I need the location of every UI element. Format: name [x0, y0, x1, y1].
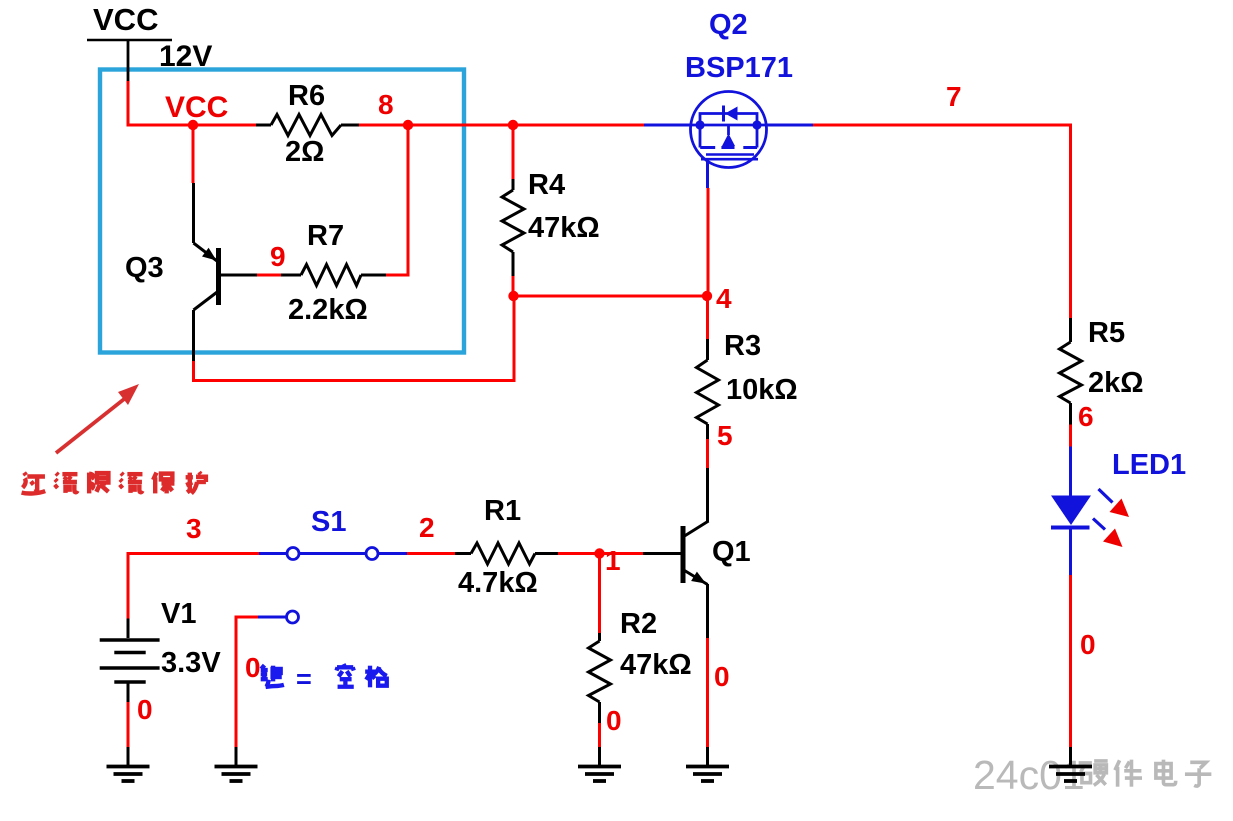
node 8 junction dot: [403, 120, 413, 130]
wire net 1 (dot to base): [558, 552, 643, 555]
watermark 硬件电子: [1079, 760, 1212, 787]
node 1 junction dot: [594, 548, 604, 558]
svg-text:=: =: [296, 664, 312, 694]
wire R4 top lead red: [512, 125, 515, 179]
svg-text:Q3: Q3: [125, 252, 164, 284]
wire VCC dot to Q3 emitter (red): [192, 125, 195, 183]
wire net 9 (R7 to Q3 base): [257, 274, 281, 277]
wire Q1 emitter down (black): [706, 584, 709, 638]
resistor R1: [455, 543, 558, 564]
wire net 3 (red): [128, 554, 259, 619]
wire R6 to node 8: [359, 124, 410, 127]
wire Q1 collector lead: [685, 468, 709, 536]
svg-text:R1: R1: [484, 495, 521, 527]
wire Q3 base lead: [220, 274, 257, 277]
resistor R3: [697, 339, 719, 439]
svg-text:Q1: Q1: [712, 536, 751, 568]
wire top rail to Q2 (blue lead): [644, 124, 691, 127]
svg-text:9: 9: [270, 241, 286, 272]
svg-text:8: 8: [378, 89, 394, 120]
svg-text:R7: R7: [307, 220, 344, 252]
wire node 8 down to R7: [386, 125, 408, 275]
svg-text:BSP171: BSP171: [685, 52, 793, 84]
wire R2 bottom (red): [598, 723, 601, 747]
wire Q2 right lead (blue): [767, 124, 814, 127]
battery V1: [100, 619, 160, 703]
node VCC junction dot: [188, 120, 198, 130]
svg-text:R6: R6: [288, 80, 325, 112]
wire net 5 (red): [706, 439, 709, 468]
svg-text:4.7kΩ: 4.7kΩ: [458, 567, 538, 599]
svg-text:2kΩ: 2kΩ: [1088, 367, 1144, 399]
svg-text:Q2: Q2: [709, 9, 748, 41]
wire Q1 emitter net 0 (red): [706, 638, 709, 747]
power VCC symbol: [87, 40, 172, 81]
svg-text:V1: V1: [161, 598, 196, 630]
resistor R6: [256, 115, 359, 136]
svg-text:2Ω: 2Ω: [285, 136, 324, 168]
node 4 junction dot: [702, 291, 712, 301]
node R4 tap dot: [508, 120, 518, 130]
svg-text:1: 1: [605, 545, 621, 576]
wire R4 bottom red: [512, 276, 515, 297]
svg-text:2.2kΩ: 2.2kΩ: [288, 294, 368, 326]
svg-text:S1: S1: [311, 506, 346, 538]
svg-text:0: 0: [137, 694, 153, 725]
svg-text:47kΩ: 47kΩ: [620, 649, 692, 681]
transistor Q3 (PNP): [194, 243, 219, 310]
svg-text:0: 0: [1080, 629, 1096, 660]
wire S1 throw stub (red): [236, 617, 258, 747]
svg-text:6: 6: [1078, 401, 1094, 432]
text 键 = 空格: [261, 664, 387, 694]
diode LED1: [1051, 447, 1129, 576]
ground (battery): [107, 747, 150, 781]
switch S1: [258, 548, 407, 624]
highlight box (overcurrent protection): [100, 70, 464, 353]
transistor Q1 (NPN): [683, 526, 708, 585]
svg-text:0: 0: [245, 652, 261, 683]
wire Q1 base lead: [643, 552, 681, 555]
resistor R2: [589, 633, 611, 723]
svg-text:12V: 12V: [159, 40, 212, 73]
resistor R4: [502, 179, 524, 276]
ground (switch throw): [215, 747, 258, 781]
svg-text:R4: R4: [528, 169, 565, 201]
svg-text:47kΩ: 47kΩ: [528, 212, 600, 244]
svg-text:4: 4: [716, 283, 732, 314]
wire top rail left (net VCC): [127, 124, 257, 127]
svg-text:R2: R2: [620, 608, 657, 640]
node R4 bottom junction dot: [508, 291, 518, 301]
svg-text:7: 7: [946, 81, 962, 112]
ground (LED): [1049, 747, 1092, 781]
svg-text:2: 2: [419, 512, 435, 543]
svg-text:0: 0: [714, 661, 730, 692]
wire top rail middle: [359, 124, 644, 127]
svg-text:R5: R5: [1088, 317, 1125, 349]
resistor R5: [1060, 318, 1082, 425]
transistor Q2 (PMOS BSP171): [691, 92, 767, 189]
wire Q2 gate down to node 4 (red): [707, 188, 710, 296]
ground (Q1): [686, 747, 729, 781]
wire net 6 (red): [1069, 425, 1072, 447]
wire net 2 (red): [407, 552, 455, 555]
svg-text:R3: R3: [724, 330, 761, 362]
wire Q3 emitter up (black lead): [192, 183, 195, 243]
svg-text:3.3V: 3.3V: [161, 647, 221, 679]
svg-text:LED1: LED1: [1112, 449, 1186, 481]
annotation arrow: [56, 384, 139, 453]
wire net 7 to right edge: [813, 125, 1071, 318]
svg-text:5: 5: [717, 420, 733, 451]
wire Q3 collector to R4 bottom node (red): [194, 296, 515, 381]
svg-text:VCC: VCC: [93, 2, 158, 37]
wire LED to ground (red): [1069, 575, 1072, 747]
wire VCC drop (red): [127, 81, 130, 127]
ground (R2): [578, 747, 621, 781]
wire Q3 collector down (black): [192, 310, 195, 361]
resistor R7: [281, 265, 386, 286]
wire R2 top (red): [598, 554, 601, 634]
wire node 4 horizontal: [514, 295, 708, 298]
svg-text:10kΩ: 10kΩ: [726, 374, 798, 406]
svg-text:VCC: VCC: [165, 91, 228, 124]
wire battery to ground (red): [127, 702, 130, 747]
wire R3 top red: [706, 296, 709, 339]
svg-text:3: 3: [186, 513, 202, 544]
svg-text:0: 0: [606, 705, 622, 736]
annotation text 过流限流保护: [22, 472, 206, 493]
